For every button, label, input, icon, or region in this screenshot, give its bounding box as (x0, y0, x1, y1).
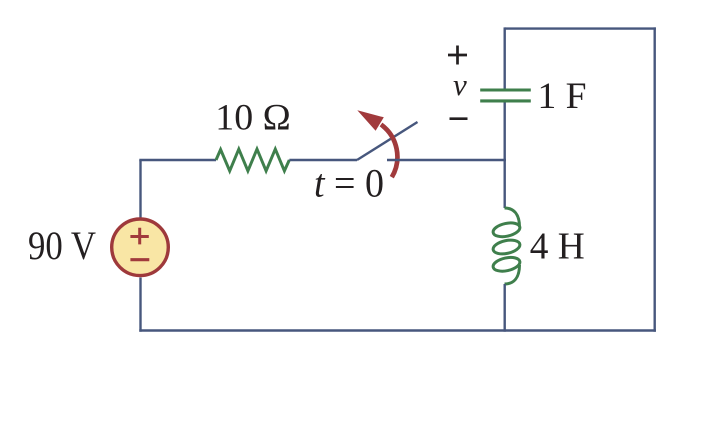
switch arrowhead (red) (357, 110, 384, 131)
label - (capacitor polarity) (450, 117, 468, 120)
wire top horizontal (505, 27, 656, 29)
svg-text:10 Ω: 10 Ω (215, 98, 290, 139)
svg-text:4 H: 4 H (530, 226, 585, 268)
wire bottom horizontal (139, 329, 656, 331)
capacitor C 1F top plate (480, 88, 531, 91)
inductor L 4H loop 1 (492, 221, 521, 239)
wire right vertical (654, 27, 656, 331)
label + (capacitor polarity) (448, 46, 467, 65)
svg-text:90 V: 90 V (28, 223, 96, 268)
wire resistor to switch pivot (289, 159, 357, 161)
wire capacitor branch top (504, 27, 506, 88)
inductor L 4H loop 2 (492, 238, 521, 256)
source plus sign (130, 228, 148, 245)
inductor L 4H loop 3 (492, 255, 521, 273)
capacitor C 1F bottom plate (480, 99, 531, 102)
voltage source circle 90V (112, 219, 169, 276)
wire top-left horizontal (corner to resistor) (139, 159, 216, 161)
svg-text:v: v (453, 67, 467, 102)
wire capacitor to inductor (through junction) (504, 103, 506, 209)
inductor L 4H coil bottom arc (505, 265, 520, 284)
wire left vertical top (source to top-left corner) (139, 160, 141, 218)
source minus sign (130, 258, 149, 261)
wire switch right terminal to node (387, 159, 506, 161)
wire source bottom to bottom-left corner (139, 278, 141, 332)
wire inductor bottom (504, 284, 506, 332)
resistor R 10 ohm zigzag (216, 149, 289, 171)
inductor L 4H coil top arc (505, 208, 520, 227)
switch blade (open, diagonal) (357, 122, 418, 160)
switch arc (red) (381, 125, 397, 178)
svg-text:t = 0: t = 0 (314, 161, 384, 206)
svg-text:1 F: 1 F (538, 76, 587, 117)
